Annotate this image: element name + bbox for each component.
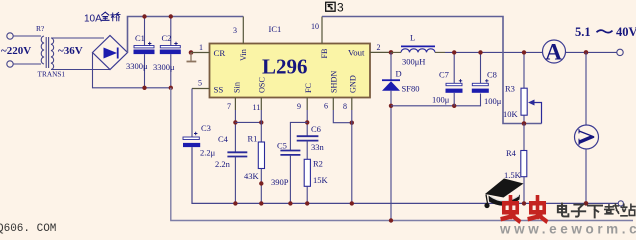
svg-text:C4: C4 <box>218 134 229 144</box>
capacitor C1 <box>126 17 155 88</box>
junction dot pin8 bus <box>350 201 354 205</box>
svg-text:~220V: ~220V <box>1 45 31 57</box>
svg-text:100μ: 100μ <box>432 95 450 105</box>
wire pin7 down <box>234 110 236 152</box>
wire outer ground loop <box>171 88 633 221</box>
junction dot pin7 <box>233 120 237 124</box>
svg-text:10: 10 <box>311 22 319 31</box>
svg-text:Q606. COM: Q606. COM <box>0 223 56 235</box>
svg-text:~36V: ~36V <box>58 45 83 57</box>
svg-text:33n: 33n <box>311 142 325 152</box>
pin 10 number <box>311 22 319 31</box>
pin name OSC <box>258 77 267 93</box>
wire C4 to bus <box>234 157 236 204</box>
svg-text:C1: C1 <box>135 33 145 43</box>
wire divider to R4 <box>523 124 525 151</box>
svg-text:C5: C5 <box>277 141 287 151</box>
svg-text:C2: C2 <box>162 33 172 43</box>
svg-text:CR: CR <box>214 48 226 58</box>
svg-text:IC1: IC1 <box>269 24 282 34</box>
label Q606.COM <box>0 223 56 235</box>
diode D SF80 <box>382 69 419 94</box>
wire pin8 to bus <box>351 110 353 203</box>
junction dot diode outer <box>389 218 393 222</box>
pin name Vin <box>239 49 248 61</box>
capacitor C8 <box>472 52 502 106</box>
wire C6 to R2 <box>306 141 308 160</box>
svg-text:R4: R4 <box>506 148 517 158</box>
junction dot R1 bus <box>259 201 263 205</box>
svg-text:FB: FB <box>320 48 329 59</box>
wire C7 C8 ground <box>391 94 481 106</box>
svg-text:C8: C8 <box>487 70 497 80</box>
junction dot R2 bus <box>305 201 309 205</box>
svg-text:390P: 390P <box>271 177 289 187</box>
voltmeter V <box>574 125 599 149</box>
junction dot R4 bus <box>522 201 526 205</box>
resistor R3 potentiometer <box>503 52 527 123</box>
svg-text:R3: R3 <box>505 84 515 94</box>
label 图3 <box>326 1 344 15</box>
label ~36V <box>58 45 83 57</box>
capacitor C4 <box>215 134 247 169</box>
wire secondary bottom to bridge <box>51 69 110 71</box>
watermark 电子下载站 <box>558 204 635 218</box>
pin name Vout <box>348 48 365 58</box>
junction dot pin8 <box>350 121 354 125</box>
pin 5 number <box>198 79 202 88</box>
pin 8 stub <box>351 98 353 111</box>
svg-text:3: 3 <box>233 26 237 35</box>
junction dot C2 bottom <box>169 86 173 90</box>
svg-text:40V: 40V <box>616 25 636 39</box>
inductor L <box>401 33 435 67</box>
wire bridge left corner to lower bus <box>93 53 171 88</box>
svg-text:SHDN: SHDN <box>330 71 339 93</box>
label IC1 <box>269 24 282 34</box>
capacitor C6 <box>297 124 325 152</box>
pin 6 number <box>324 102 328 111</box>
junction dot pin9 <box>305 120 309 124</box>
watermark www.eeworm.com <box>499 222 636 237</box>
wire R4 to bus <box>523 177 525 204</box>
wire secondary top to bridge <box>51 37 104 39</box>
svg-text:100μ: 100μ <box>484 96 502 106</box>
svg-text:3: 3 <box>337 1 344 15</box>
wiper arrow R3 <box>528 100 542 124</box>
svg-text:R?: R? <box>36 24 45 33</box>
junction dot C7 gnd <box>452 104 456 108</box>
terminal output plus <box>617 49 623 55</box>
junction dot output <box>584 50 589 55</box>
pin 7 number <box>227 102 231 111</box>
svg-text:1.5K: 1.5K <box>504 170 522 180</box>
svg-text:Sin: Sin <box>233 82 242 93</box>
svg-text:7: 7 <box>227 102 231 111</box>
wire ammeter to terminal <box>566 51 617 53</box>
wire pin5 down to C3 <box>191 89 193 138</box>
svg-text:2: 2 <box>377 43 381 52</box>
junction dot C1 bottom <box>142 86 146 90</box>
pin 11 number <box>253 103 261 112</box>
junction dot voltmeter bus <box>584 201 589 206</box>
junction dot C5 bus <box>288 201 292 205</box>
svg-text:300μH: 300μH <box>402 57 425 67</box>
svg-text:GND: GND <box>349 75 358 93</box>
pin 6 stub <box>332 98 334 111</box>
pin 9 stub <box>306 98 308 111</box>
svg-text:R1: R1 <box>248 134 258 144</box>
terminal AC input top <box>7 33 13 39</box>
svg-text:2.2n: 2.2n <box>215 159 231 169</box>
pin name GND <box>349 75 358 93</box>
junction dot diode top <box>389 50 394 55</box>
pin name SHDN <box>330 71 339 93</box>
svg-text:V: V <box>574 128 599 145</box>
svg-text:SS: SS <box>214 85 224 95</box>
svg-text:D: D <box>396 69 402 79</box>
svg-text:C3: C3 <box>201 123 211 133</box>
wire FB net <box>322 17 542 124</box>
wire C5 stub <box>290 122 307 150</box>
pin 9 number <box>297 102 301 111</box>
svg-text:9: 9 <box>297 102 301 111</box>
pin 2 number <box>377 43 381 52</box>
svg-text:5: 5 <box>198 79 202 88</box>
pin 11 stub <box>260 98 262 111</box>
svg-text:5.1: 5.1 <box>575 25 591 39</box>
svg-text:SF80: SF80 <box>402 84 420 94</box>
pin 10 stub <box>321 17 323 44</box>
svg-text:3300μ: 3300μ <box>126 61 148 71</box>
pin 1 number <box>199 43 203 52</box>
label TRANS1 <box>38 70 66 79</box>
svg-text:A: A <box>545 40 562 65</box>
wire bridge right corner to top bus <box>128 17 244 53</box>
svg-text:Vin: Vin <box>239 49 248 61</box>
label 5.1 ~ 40V <box>575 25 636 39</box>
svg-text:FC: FC <box>304 82 313 93</box>
wire pin9 down <box>306 110 308 136</box>
junction dot R3 top <box>522 50 526 54</box>
svg-text:R2: R2 <box>313 159 323 169</box>
watermark graduation cap <box>484 179 523 209</box>
pin name Sin <box>233 82 242 93</box>
pin name SS <box>214 85 224 95</box>
svg-text:Vout: Vout <box>348 48 365 58</box>
label 10A全桥 <box>84 12 120 24</box>
wire voltmeter top <box>585 52 587 125</box>
node pin1: junction dot <box>189 50 194 55</box>
label R? <box>36 24 45 33</box>
svg-text:11: 11 <box>253 103 261 112</box>
pin 3 number <box>233 26 237 35</box>
wire pin6 to pin8 <box>333 110 352 123</box>
wire R1 to bus <box>260 169 262 204</box>
junction dot diode gnd wire <box>389 104 393 108</box>
svg-text:www.eeworm.com: www.eeworm.com <box>499 222 636 236</box>
wire pin 2 <box>370 51 391 53</box>
svg-text:3300μ: 3300μ <box>153 62 175 72</box>
pin 8 number <box>343 102 347 111</box>
resistor R2 <box>304 159 328 187</box>
wire output rail <box>391 51 543 53</box>
wire R2 to bus <box>306 186 308 203</box>
svg-text:1: 1 <box>199 43 203 52</box>
transformer TRANS1 <box>41 36 53 70</box>
junction dot R1 mid <box>259 181 263 185</box>
junction dot C4 bus <box>233 201 237 205</box>
wire pin 5 <box>192 88 210 90</box>
wire diode top <box>390 52 392 79</box>
capacitor C3 <box>183 123 216 158</box>
pin 3 stub <box>242 17 244 44</box>
watermark 虫虫 <box>502 197 546 221</box>
svg-text:TRANS1: TRANS1 <box>38 70 66 79</box>
resistor R4 <box>504 148 527 180</box>
wire diode anode down <box>390 91 392 221</box>
svg-text:C6: C6 <box>311 124 321 134</box>
svg-text:8: 8 <box>343 102 347 111</box>
pin name FB <box>320 48 329 59</box>
svg-text:15K: 15K <box>313 175 329 185</box>
junction dot pin11 <box>259 120 263 124</box>
bridge rectifier 10A <box>93 36 128 70</box>
svg-text:L296: L296 <box>262 55 308 79</box>
wire <box>13 35 41 37</box>
capacitor C5 <box>271 141 300 188</box>
ground <box>187 53 197 62</box>
svg-text:C7: C7 <box>439 70 449 80</box>
wire connector pin7-pin11 <box>235 121 261 123</box>
pin 7 stub <box>234 98 236 111</box>
svg-text:10K: 10K <box>503 109 519 119</box>
pin name FC <box>304 82 313 93</box>
svg-text:10A: 10A <box>84 14 102 25</box>
svg-text:L: L <box>410 33 415 43</box>
terminal output minus <box>618 201 623 206</box>
capacitor C7 <box>432 52 463 105</box>
svg-text:OSC: OSC <box>258 77 267 93</box>
wire C5 to bus <box>289 155 291 204</box>
wire pin11 down <box>260 110 262 142</box>
op-amp ... IC L296 box U1 <box>210 44 371 98</box>
wire pin 1 <box>191 52 210 54</box>
junction dot C8 top <box>478 50 482 54</box>
svg-text:43K: 43K <box>244 171 260 181</box>
ammeter A <box>543 40 566 65</box>
resistor R1 <box>244 134 265 182</box>
junction dot C2 top <box>169 14 173 18</box>
wire C3 to inner bus <box>192 147 618 203</box>
wire <box>13 63 41 65</box>
pin name CR <box>214 48 226 58</box>
wire voltmeter bottom <box>585 149 587 203</box>
svg-text:2.2μ: 2.2μ <box>200 148 216 158</box>
junction dot C1 top <box>142 14 146 18</box>
junction dot divider <box>522 121 527 126</box>
junction dot C7 top <box>452 50 456 54</box>
label ~220V <box>1 45 31 57</box>
svg-text:6: 6 <box>324 102 328 111</box>
terminal AC input bottom <box>7 61 13 67</box>
capacitor C2 <box>153 17 181 88</box>
